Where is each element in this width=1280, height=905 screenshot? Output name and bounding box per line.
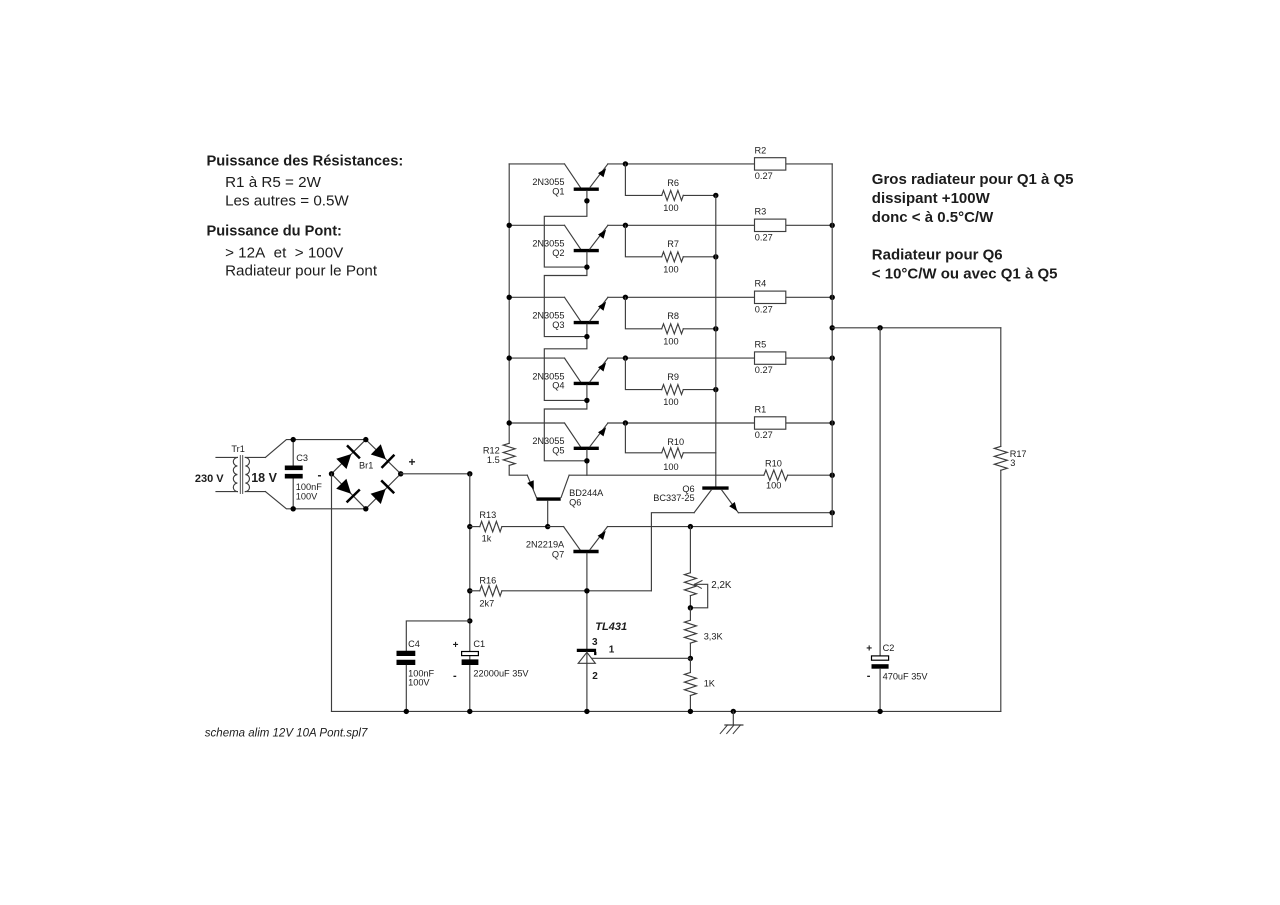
svg-text:+: + bbox=[866, 644, 872, 655]
node R6 right bbox=[713, 193, 718, 198]
note: heatsink text block bbox=[872, 171, 1074, 282]
capacitor C3 bbox=[285, 440, 322, 509]
transistor Q6 BC337-25 bbox=[653, 484, 738, 513]
svg-text:100V: 100V bbox=[408, 678, 430, 688]
svg-text:schema alim 12V 10A Pont.spl7: schema alim 12V 10A Pont.spl7 bbox=[205, 728, 368, 740]
node Q7 base R16 bbox=[584, 588, 589, 593]
node base Q2 bbox=[584, 264, 589, 269]
svg-text:Radiateur pour le Pont: Radiateur pour le Pont bbox=[225, 263, 378, 280]
node plus R13 bbox=[467, 524, 472, 529]
node pot wiper bbox=[688, 605, 693, 610]
svg-text:470uF 35V: 470uF 35V bbox=[883, 672, 929, 682]
svg-text:100: 100 bbox=[663, 264, 678, 274]
svg-text:BC337-25: BC337-25 bbox=[653, 493, 694, 503]
capacitor C1 22000uF bbox=[453, 639, 530, 682]
svg-text:2,2K: 2,2K bbox=[711, 580, 732, 591]
resistor R1 0.27 bbox=[755, 404, 786, 440]
wire ground rail (bottom) bbox=[332, 710, 1001, 712]
svg-text:Q7: Q7 bbox=[552, 549, 564, 559]
node bridge left bbox=[329, 471, 334, 476]
node C1 ground bbox=[467, 709, 472, 714]
resistor R13 1k bbox=[470, 510, 548, 544]
node 1K ground bbox=[688, 709, 693, 714]
ground bbox=[720, 711, 743, 733]
svg-text:+: + bbox=[453, 640, 459, 651]
wire bridge plus output bbox=[401, 473, 470, 475]
svg-text:1: 1 bbox=[609, 645, 615, 656]
node collector rail row 3 bbox=[507, 295, 512, 300]
svg-text:230 V: 230 V bbox=[195, 473, 224, 485]
svg-text:Tr1: Tr1 bbox=[231, 444, 244, 454]
node TL431 anode ground bbox=[584, 709, 589, 714]
svg-text:C2: C2 bbox=[883, 643, 895, 653]
svg-text:Gros radiateur pour Q1 à Q5: Gros radiateur pour Q1 à Q5 bbox=[872, 171, 1074, 188]
node C2 branch bbox=[877, 325, 882, 330]
note: schematic file name bbox=[205, 728, 368, 740]
resistor R4 0.27 bbox=[755, 279, 786, 315]
resistor 1K bbox=[684, 658, 715, 711]
svg-text:2k7: 2k7 bbox=[479, 599, 494, 609]
node Q6 base bbox=[545, 524, 550, 529]
wire BC337 collector bus bbox=[715, 195, 717, 486]
node BC337 emitter bus bbox=[830, 510, 835, 515]
svg-text:2: 2 bbox=[592, 671, 598, 682]
wire Q6 collector to R10b bbox=[569, 474, 764, 476]
wire emitter rail row 5 bbox=[509, 422, 832, 424]
svg-text:< 10°C/W ou avec Q1 à Q5: < 10°C/W ou avec Q1 à Q5 bbox=[872, 265, 1058, 282]
bridge rectifier Br1 bbox=[332, 440, 401, 509]
node divider top bbox=[688, 524, 693, 529]
wire output bus vertical bbox=[831, 164, 833, 527]
wire plus bus vertical bbox=[469, 474, 471, 712]
svg-text:R3: R3 bbox=[755, 207, 767, 217]
wire emitter to R9 bbox=[625, 358, 661, 390]
svg-text:R13: R13 bbox=[479, 510, 496, 520]
svg-text:1.5: 1.5 bbox=[487, 455, 500, 465]
node base Q5 bbox=[584, 458, 589, 463]
node plus R16 bbox=[467, 588, 472, 593]
wire emitter to R6 bbox=[625, 164, 661, 196]
transistor Q4 2N3055 bbox=[532, 358, 608, 391]
wire TL431 ref bbox=[592, 657, 690, 659]
wire emitter rail row 3 bbox=[509, 296, 832, 298]
svg-text:3,3K: 3,3K bbox=[704, 632, 724, 642]
svg-text:R6: R6 bbox=[667, 178, 679, 188]
wire output branch right bbox=[832, 327, 1001, 329]
wire base of Q1 bbox=[544, 191, 587, 267]
node bridge bottom bbox=[363, 506, 368, 511]
wire emitter to R10 bbox=[625, 423, 661, 453]
svg-text:-: - bbox=[453, 670, 457, 682]
node R8 right bbox=[713, 326, 718, 331]
wire emitter rail row 1 bbox=[509, 163, 832, 165]
resistor R10 100 bbox=[662, 437, 716, 472]
wire BC337 emitter to bus bbox=[738, 512, 832, 514]
wire base of Q3 bbox=[544, 324, 587, 400]
resistor R17 3 bbox=[994, 328, 1026, 712]
svg-text:100V: 100V bbox=[296, 492, 318, 502]
node C3 top bbox=[291, 437, 296, 442]
node R10b right bbox=[830, 473, 835, 478]
node emitter row 2 bbox=[623, 223, 628, 228]
svg-text:Q5: Q5 bbox=[552, 446, 564, 456]
wire emitter to R8 bbox=[625, 297, 661, 329]
node output bus row 5 bbox=[830, 420, 835, 425]
svg-text:Q2: Q2 bbox=[552, 248, 564, 258]
node emitter row 3 bbox=[623, 295, 628, 300]
svg-text:C3: C3 bbox=[296, 453, 308, 463]
node output bus row 3 bbox=[830, 295, 835, 300]
resistor R12 1.5 bbox=[483, 443, 527, 475]
label bridge minus bbox=[318, 468, 322, 482]
wire collector rail left bbox=[508, 164, 510, 443]
resistor R5 0.27 bbox=[755, 340, 786, 376]
svg-text:R7: R7 bbox=[667, 239, 679, 249]
transistor Q1 2N3055 bbox=[532, 164, 608, 197]
node base Q1 bbox=[584, 198, 589, 203]
svg-text:R2: R2 bbox=[755, 145, 767, 155]
resistor R6 100 bbox=[662, 178, 716, 213]
potentiometer 2,2K bbox=[684, 527, 732, 608]
node R7 right bbox=[713, 254, 718, 259]
wire Q7 rail bbox=[548, 526, 833, 528]
resistor R2 0.27 bbox=[755, 145, 786, 181]
svg-text:R1: R1 bbox=[755, 404, 767, 414]
svg-text:Q6: Q6 bbox=[569, 497, 581, 507]
svg-text:R5: R5 bbox=[755, 340, 767, 350]
node bridge right bbox=[398, 471, 403, 476]
wire base of Q2 bbox=[544, 252, 587, 336]
svg-text:0.27: 0.27 bbox=[755, 430, 773, 440]
svg-text:C1: C1 bbox=[473, 639, 485, 649]
svg-text:100: 100 bbox=[766, 481, 781, 491]
capacitor C4 100nF bbox=[397, 621, 470, 712]
node bridge top bbox=[363, 437, 368, 442]
node output branch bbox=[830, 325, 835, 330]
transistor Q6 BD244A bbox=[527, 475, 604, 526]
resistor R10b 100 bbox=[764, 459, 832, 491]
wire emitter to R7 bbox=[625, 225, 661, 256]
svg-text:0.27: 0.27 bbox=[755, 171, 773, 181]
wire base of Q4 bbox=[544, 385, 587, 461]
svg-text:22000uF 35V: 22000uF 35V bbox=[473, 668, 529, 678]
transistor Q2 2N3055 bbox=[532, 225, 608, 258]
svg-text:Br1: Br1 bbox=[359, 461, 373, 471]
node collector rail row 4 bbox=[507, 355, 512, 360]
wire base of Q5 bbox=[586, 450, 588, 475]
node output bus row 2 bbox=[830, 223, 835, 228]
svg-text:R1 à R5 = 2W: R1 à R5 = 2W bbox=[225, 174, 321, 191]
node C2 ground bbox=[877, 709, 882, 714]
diode D2 (bridge upper-right) bbox=[371, 444, 395, 468]
IC U1 TL431 bbox=[577, 621, 627, 711]
node emitter row 4 bbox=[623, 355, 628, 360]
svg-text:C4: C4 bbox=[408, 639, 420, 649]
svg-text:100: 100 bbox=[663, 462, 678, 472]
svg-text:R9: R9 bbox=[667, 372, 679, 382]
svg-text:2N2219A: 2N2219A bbox=[526, 540, 565, 550]
resistor R7 100 bbox=[662, 239, 716, 274]
transistor Q5 2N3055 bbox=[532, 423, 608, 456]
svg-text:Q1: Q1 bbox=[552, 187, 564, 197]
svg-text:0.27: 0.27 bbox=[755, 232, 773, 242]
svg-text:dissipant +100W: dissipant +100W bbox=[872, 190, 991, 207]
svg-text:0.27: 0.27 bbox=[755, 365, 773, 375]
svg-text:18 V: 18 V bbox=[251, 471, 277, 485]
resistor R3 0.27 bbox=[755, 207, 786, 243]
node divider mid bbox=[688, 656, 693, 661]
svg-text:1K: 1K bbox=[704, 678, 716, 688]
svg-text:R4: R4 bbox=[755, 279, 767, 289]
svg-text:> 12A et > 100V: > 12A et > 100V bbox=[225, 244, 344, 261]
node R9 right bbox=[713, 387, 718, 392]
svg-text:TL431: TL431 bbox=[595, 621, 627, 633]
svg-text:100nF: 100nF bbox=[296, 482, 322, 492]
node base Q4 bbox=[584, 398, 589, 403]
svg-text:R16: R16 bbox=[479, 576, 496, 586]
resistor R16 2k7 bbox=[470, 576, 652, 609]
node C4 ground bbox=[404, 709, 409, 714]
svg-text:donc < à 0.5°C/W: donc < à 0.5°C/W bbox=[872, 209, 994, 226]
transistor Q7 2N2219A bbox=[526, 527, 608, 649]
wire bridge minus down bbox=[331, 474, 333, 712]
wire BC337 base run bbox=[651, 513, 694, 591]
svg-text:3: 3 bbox=[1010, 458, 1015, 468]
svg-text:+: + bbox=[409, 455, 416, 469]
svg-text:R10: R10 bbox=[765, 459, 782, 469]
diode D1 (bridge upper-left) bbox=[336, 445, 360, 469]
svg-text:100: 100 bbox=[663, 203, 678, 213]
svg-text:-: - bbox=[867, 670, 871, 682]
node output bus row 4 bbox=[830, 355, 835, 360]
svg-text:100: 100 bbox=[663, 336, 678, 346]
transformer Tr1 bbox=[195, 444, 278, 494]
node collector rail row 2 bbox=[507, 223, 512, 228]
node base Q3 bbox=[584, 334, 589, 339]
svg-text:Puissance du Pont:: Puissance du Pont: bbox=[207, 224, 342, 240]
svg-text:0.27: 0.27 bbox=[755, 304, 773, 314]
svg-text:R8: R8 bbox=[667, 311, 679, 321]
resistor R8 100 bbox=[662, 311, 716, 346]
svg-text:-: - bbox=[318, 468, 322, 482]
capacitor C2 470uF bbox=[866, 328, 928, 712]
label bridge plus bbox=[409, 455, 416, 469]
svg-text:100: 100 bbox=[663, 397, 678, 407]
node emitter row 5 bbox=[623, 420, 628, 425]
wire secondary top to bridge bbox=[265, 440, 365, 458]
svg-text:R10: R10 bbox=[667, 437, 684, 447]
node ground stub bbox=[731, 709, 736, 714]
svg-text:Q3: Q3 bbox=[552, 320, 564, 330]
wire emitter rail row 2 bbox=[509, 224, 832, 226]
note: resistor power text block bbox=[207, 153, 404, 279]
node plus corner bbox=[467, 471, 472, 476]
node plus C branch bbox=[467, 618, 472, 623]
wire secondary bottom to bridge bbox=[265, 492, 365, 509]
node emitter row 1 bbox=[623, 161, 628, 166]
diode D3 (bridge lower-left) bbox=[336, 479, 360, 503]
diode D4 (bridge lower-right) bbox=[371, 480, 395, 504]
svg-text:Les autres = 0.5W: Les autres = 0.5W bbox=[225, 192, 349, 209]
svg-text:Puissance des Résistances:: Puissance des Résistances: bbox=[207, 153, 404, 169]
resistor 3,3K bbox=[684, 608, 723, 659]
wire emitter rail row 4 bbox=[509, 357, 832, 359]
resistor R9 100 bbox=[662, 372, 716, 407]
node C3 bottom bbox=[291, 506, 296, 511]
transistor Q3 2N3055 bbox=[532, 297, 608, 330]
svg-text:Radiateur pour Q6: Radiateur pour Q6 bbox=[872, 246, 1003, 263]
svg-text:Q4: Q4 bbox=[552, 381, 564, 391]
node collector rail row 5 bbox=[507, 420, 512, 425]
svg-text:1k: 1k bbox=[482, 534, 492, 544]
svg-text:3: 3 bbox=[592, 637, 598, 648]
